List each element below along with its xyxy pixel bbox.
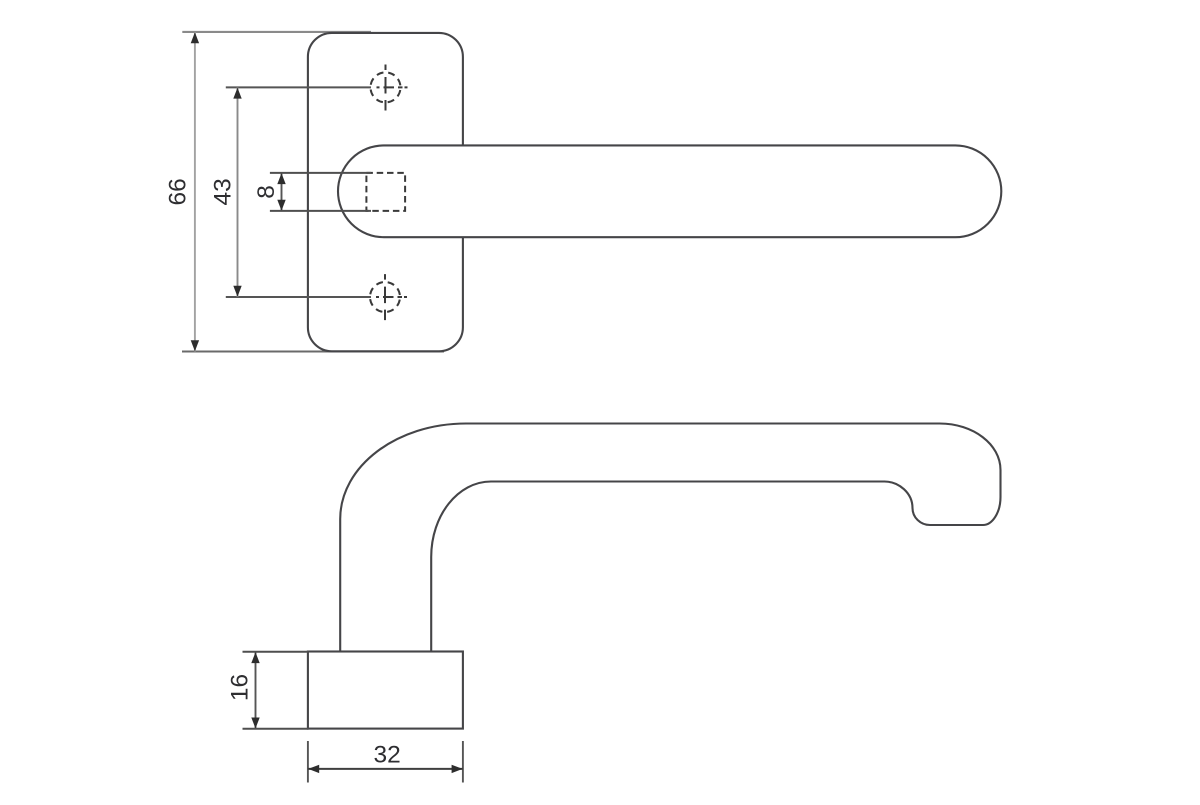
svg-text:43: 43 [210,178,237,205]
svg-text:8: 8 [253,185,280,199]
svg-text:32: 32 [373,742,400,769]
svg-text:16: 16 [226,674,253,701]
svg-text:66: 66 [164,178,191,205]
